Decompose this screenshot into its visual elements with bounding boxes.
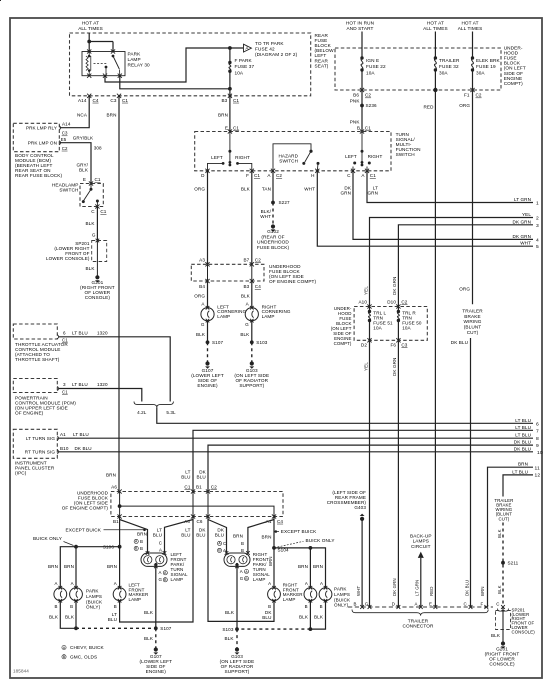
svg-text:10A: 10A <box>402 326 411 331</box>
underhood fuse block box top <box>335 48 501 90</box>
svg-text:ORG: ORG <box>459 287 470 292</box>
wire feed IGN E <box>361 32 363 59</box>
svg-text:UNDERHOOD: UNDERHOOD <box>257 240 289 245</box>
svg-text:ONLY): ONLY) <box>334 603 349 608</box>
svg-text:LAMP: LAMP <box>128 57 141 62</box>
svg-text:REAR FUSE BLOCK): REAR FUSE BLOCK) <box>15 173 63 178</box>
svg-text:PNK: PNK <box>350 99 361 104</box>
svg-text:TRAILER: TRAILER <box>462 309 483 314</box>
pin A1 C4 bottom <box>272 514 276 518</box>
svg-text:B: B <box>218 549 221 553</box>
svg-text:G403: G403 <box>354 505 366 510</box>
wire DK BLU edge 9 to lower fuse block <box>208 445 533 491</box>
svg-text:GRN: GRN <box>340 190 351 195</box>
wire brace output to edge 6 <box>157 407 533 423</box>
splice S107 cornering <box>206 340 210 344</box>
wire BLK to S107 cornering <box>207 321 209 343</box>
svg-text:BLU: BLU <box>181 532 190 537</box>
svg-text:LT BLU: LT BLU <box>515 433 531 438</box>
wire BLK left park turn lamp to S107 <box>155 566 157 628</box>
wire BLK dashed to G103 bottom <box>236 629 238 648</box>
svg-text:ORG: ORG <box>194 186 205 191</box>
svg-text:RIGHT: RIGHT <box>368 154 383 159</box>
svg-text:S107: S107 <box>160 626 171 631</box>
ground G103 bottom <box>235 647 239 651</box>
svg-text:NCA: NCA <box>77 112 88 117</box>
svg-text:TO TR PARK: TO TR PARK <box>255 41 284 46</box>
pin F6 C3 <box>396 338 400 342</box>
splice pack SP201 left <box>92 241 107 262</box>
wire LT BLU 1320 throttle to brace <box>59 337 171 402</box>
pin B4 <box>205 279 209 283</box>
svg-text:LEFT: LEFT <box>211 155 223 160</box>
svg-text:A6: A6 <box>111 484 117 489</box>
svg-text:A3: A3 <box>199 257 205 262</box>
svg-text:B: B <box>54 604 57 609</box>
svg-text:CIRCUIT: CIRCUIT <box>411 544 431 549</box>
pin F C1 on switch <box>250 169 254 173</box>
svg-text:LAMPS: LAMPS <box>334 592 350 597</box>
svg-text:B6: B6 <box>353 93 359 98</box>
svg-text:B: B <box>357 125 360 130</box>
svg-text:WHT: WHT <box>520 241 531 246</box>
svg-text:B: B <box>241 541 244 546</box>
svg-text:A: A <box>71 581 74 586</box>
svg-text:A: A <box>54 581 57 586</box>
svg-text:FUSE 32: FUSE 32 <box>439 64 459 69</box>
svg-text:B: B <box>70 604 73 609</box>
splice pack SP201 right <box>498 609 509 612</box>
svg-text:BRN: BRN <box>107 564 117 569</box>
pin B1 bottom <box>118 514 122 518</box>
svg-text:3: 3 <box>63 382 66 387</box>
svg-text:IGN E: IGN E <box>366 58 379 63</box>
svg-text:BRN: BRN <box>64 564 74 569</box>
svg-text:C1: C1 <box>184 484 190 489</box>
wire BRN diagonal to left park turn lamp <box>120 520 148 554</box>
wire BRN from C3 C1 down to A6 <box>118 96 120 492</box>
svg-text:308: 308 <box>94 146 102 151</box>
svg-text:1: 1 <box>536 201 539 207</box>
svg-text:S107: S107 <box>212 340 223 345</box>
svg-text:S103: S103 <box>256 340 267 345</box>
wire WHT G403 to trailer connector B <box>361 519 363 607</box>
svg-text:BLK: BLK <box>144 610 154 615</box>
pin A10 <box>367 304 371 308</box>
pin B3 C1 on rear fuse block <box>228 94 232 98</box>
svg-text:FUSE 37: FUSE 37 <box>235 64 255 69</box>
svg-text:BRAKE: BRAKE <box>464 314 480 319</box>
svg-text:PNK: PNK <box>350 119 361 124</box>
wire fuse bottom to B3 <box>229 71 231 96</box>
svg-text:B: B <box>164 578 167 582</box>
svg-text:ENGINE): ENGINE) <box>146 669 167 674</box>
svg-text:BLK: BLK <box>86 221 96 226</box>
pin A6 C6 bottom <box>191 514 195 518</box>
pin A G of left park turn lamp <box>154 565 158 569</box>
wire BRN B1 to S106 and marker lamp <box>119 517 121 588</box>
right turn switch contacts <box>361 132 363 152</box>
svg-text:C1: C1 <box>254 173 260 178</box>
svg-text:1320: 1320 <box>97 382 108 387</box>
splice S211 <box>501 561 505 565</box>
svg-text:C2: C2 <box>255 257 261 262</box>
svg-text:(DIAGRAM 2 OF 2): (DIAGRAM 2 OF 2) <box>255 52 298 57</box>
svg-text:A: A <box>164 571 167 575</box>
svg-text:C3: C3 <box>401 342 407 347</box>
svg-text:12: 12 <box>535 472 541 478</box>
pin A C2 on switch <box>271 169 275 173</box>
svg-text:3: 3 <box>536 223 539 229</box>
svg-text:TRAILER: TRAILER <box>408 618 429 623</box>
wire BRN buick only park lamps right <box>274 548 326 588</box>
trailer connector brace <box>352 610 488 616</box>
svg-text:DK BLU: DK BLU <box>75 446 92 451</box>
svg-text:EXCEPT BUICK: EXCEPT BUICK <box>281 529 317 534</box>
wire GRY/BLK 308 from BCM to headlamp switch <box>60 143 91 184</box>
svg-text:(REAR OF: (REAR OF <box>261 234 284 239</box>
ground G103 cornering <box>250 361 254 365</box>
pin A G of right park turn lamp <box>235 565 239 569</box>
svg-text:1320: 1320 <box>97 330 108 335</box>
svg-text:C1: C1 <box>233 98 239 103</box>
svg-text:ENGINE): ENGINE) <box>197 383 218 388</box>
svg-text:G102: G102 <box>267 229 279 234</box>
svg-text:LT BLU: LT BLU <box>72 382 88 387</box>
svg-text:A14: A14 <box>62 122 71 127</box>
svg-text:A: A <box>240 569 243 574</box>
underhood fuse block box trailer fuses <box>354 307 427 341</box>
svg-text:BRN: BRN <box>106 472 116 477</box>
svg-text:BLK: BLK <box>314 614 324 619</box>
svg-text:G: G <box>159 577 163 582</box>
wire hot feed to relay <box>88 33 90 52</box>
wire BLK headlamp switch to SP201 <box>96 207 98 241</box>
svg-text:BLK: BLK <box>497 585 502 594</box>
svg-text:RIGHT: RIGHT <box>235 155 250 160</box>
svg-text:C4: C4 <box>255 284 261 289</box>
svg-text:COMPT): COMPT) <box>504 81 523 86</box>
pin C3 C1 on rear fuse block <box>117 94 121 98</box>
pin C1 B1 top <box>191 489 195 493</box>
svg-text:B1: B1 <box>196 484 202 489</box>
svg-text:BLK: BLK <box>49 614 59 619</box>
svg-text:BRN: BRN <box>107 112 117 117</box>
svg-text:C2: C2 <box>401 299 407 304</box>
svg-text:FUSE 19: FUSE 19 <box>476 64 496 69</box>
pin A3 <box>205 262 209 266</box>
wire BRN A1 C4 to S104 <box>273 517 275 588</box>
svg-text:DK GRN: DK GRN <box>513 219 531 224</box>
svg-text:LAMP: LAMP <box>171 577 184 582</box>
pin D10 C2 <box>396 304 400 308</box>
svg-text:G: G <box>92 232 96 237</box>
legend B gmc olds <box>62 655 66 659</box>
fuse TRL L TRN FUSE 51 10A <box>369 307 371 312</box>
svg-text:GMC, OLDS: GMC, OLDS <box>70 654 97 659</box>
svg-text:LAMPS: LAMPS <box>413 539 429 544</box>
svg-text:S227: S227 <box>279 200 290 205</box>
pin A C1 on switch <box>365 169 369 173</box>
svg-text:A14: A14 <box>78 98 87 103</box>
legend A chevy buick <box>62 645 66 649</box>
splice S104 <box>272 546 276 550</box>
svg-text:6: 6 <box>63 330 66 335</box>
svg-text:5: 5 <box>536 244 539 250</box>
svg-text:LAMP: LAMP <box>217 314 230 319</box>
svg-text:SWITCH: SWITCH <box>279 158 298 163</box>
svg-text:YEL: YEL <box>522 212 531 217</box>
svg-text:EXCEPT BUICK: EXCEPT BUICK <box>66 527 102 532</box>
svg-text:ONLY): ONLY) <box>86 605 101 610</box>
svg-text:C4: C4 <box>93 98 99 103</box>
svg-text:C2: C2 <box>211 484 217 489</box>
ground G403 <box>360 517 364 521</box>
lamp left front park turn signal lamp <box>141 553 167 566</box>
wire BRN from B3 C1 down to turn signal switch <box>229 96 231 132</box>
svg-text:LT GRN: LT GRN <box>514 197 531 202</box>
svg-text:9: 9 <box>536 443 539 449</box>
svg-text:TRAILER: TRAILER <box>439 58 460 63</box>
svg-text:F1: F1 <box>464 93 470 98</box>
svg-text:A: A <box>159 547 162 552</box>
wire ORG elek brk blunt cut <box>472 90 474 304</box>
svg-text:C: C <box>159 540 162 545</box>
svg-text:ELEK BRK: ELEK BRK <box>476 58 501 63</box>
svg-text:11: 11 <box>535 465 540 471</box>
svg-text:10A: 10A <box>235 70 244 75</box>
fuse IGN E FUSE 22 10A <box>360 56 363 59</box>
svg-text:B: B <box>140 539 143 544</box>
svg-text:AND START: AND START <box>346 26 373 31</box>
svg-text:CONSOLE): CONSOLE) <box>512 629 536 634</box>
svg-text:F: F <box>246 173 249 178</box>
svg-text:DK GRN: DK GRN <box>392 578 397 596</box>
svg-text:C2: C2 <box>476 93 482 98</box>
wire LT BLU edge 7 to lower fuse block <box>193 430 533 491</box>
svg-text:B: B <box>245 577 248 581</box>
svg-text:5.3L: 5.3L <box>166 410 176 415</box>
wire DK GRN to edge 4 <box>353 171 533 240</box>
svg-text:C1: C1 <box>233 125 239 130</box>
ground G102 <box>271 224 275 228</box>
svg-text:C: C <box>223 541 226 546</box>
ground G201 right <box>501 641 505 645</box>
svg-text:30A: 30A <box>439 70 448 75</box>
svg-text:BLK: BLK <box>497 529 502 538</box>
svg-text:ALL TIMES: ALL TIMES <box>458 26 483 31</box>
svg-text:(BUICK: (BUICK <box>86 599 103 604</box>
svg-text:B: B <box>268 604 271 609</box>
svg-text:D: D <box>392 601 395 606</box>
pin A6 top <box>118 489 122 493</box>
svg-text:BLK: BLK <box>241 186 251 191</box>
wire LT GRN to edge 1 <box>367 171 533 203</box>
svg-text:THROTTLE SHAFT): THROTTLE SHAFT) <box>15 357 60 362</box>
fuse TRAILER FUSE 32 30A <box>434 56 437 59</box>
svg-text:YEL: YEL <box>363 286 368 295</box>
svg-text:A: A <box>159 570 162 575</box>
svg-text:C2: C2 <box>62 146 68 151</box>
brace 4.2L 5.3L engine options <box>134 402 173 408</box>
svg-text:BLU: BLU <box>262 615 271 620</box>
bus inside lower fuse block <box>119 492 121 517</box>
pin B6 C2 <box>360 88 364 92</box>
svg-text:CONSOLE): CONSOLE) <box>489 661 515 666</box>
pin H on switch <box>315 169 319 173</box>
svg-text:B: B <box>63 655 66 659</box>
wire LT BLU diagonal to left park turn lamp <box>165 520 194 554</box>
svg-text:C1: C1 <box>122 98 128 103</box>
svg-text:SWITCH: SWITCH <box>59 187 78 192</box>
svg-text:BLK: BLK <box>240 332 250 337</box>
svg-text:LOWER CONSOLE): LOWER CONSOLE) <box>46 256 90 261</box>
wire YEL edge 2 to trailer fuse <box>370 218 534 307</box>
svg-text:S103: S103 <box>222 627 233 632</box>
wire feed elek brk fuse <box>472 32 474 59</box>
svg-text:SUPPORT): SUPPORT) <box>239 383 264 388</box>
svg-text:F6: F6 <box>390 342 396 347</box>
svg-text:A: A <box>268 581 271 586</box>
wire BLK/WHT to ground G102 <box>272 203 274 226</box>
svg-text:7: 7 <box>536 428 539 434</box>
svg-text:LT BLU: LT BLU <box>515 425 531 430</box>
svg-text:LT BLU: LT BLU <box>72 330 88 335</box>
svg-text:E: E <box>225 125 228 130</box>
pin B3 C4 <box>250 279 254 283</box>
wire BLK dashed to G103 cornering <box>251 342 253 362</box>
svg-text:10A: 10A <box>373 326 382 331</box>
svg-text:BLU: BLU <box>153 532 162 537</box>
wire DK BLU IPC to edge 10 <box>59 451 534 453</box>
svg-text:BLK: BLK <box>196 332 206 337</box>
svg-text:BLU: BLU <box>197 474 206 479</box>
svg-text:ALL TIMES: ALL TIMES <box>78 26 103 31</box>
fuse ELEK BRK FUSE 19 30A <box>471 56 474 59</box>
svg-text:C1: C1 <box>365 125 371 130</box>
svg-text:FUSE BLOCK): FUSE BLOCK) <box>257 245 290 250</box>
svg-text:C2: C2 <box>276 173 282 178</box>
svg-text:PARK: PARK <box>334 587 347 592</box>
pin F1 C2 <box>470 88 474 92</box>
svg-text:C1: C1 <box>100 209 106 214</box>
svg-text:PRK LMP RLY: PRK LMP RLY <box>26 125 57 130</box>
svg-text:LEFT: LEFT <box>345 154 357 159</box>
pin E C1 on switch <box>228 129 232 133</box>
wire feed trailer fuse <box>434 32 436 59</box>
svg-text:BUICK ONLY: BUICK ONLY <box>306 538 336 543</box>
pin B C1 on switch <box>360 129 364 133</box>
svg-text:BRN: BRN <box>262 534 272 539</box>
svg-text:DK GRN: DK GRN <box>392 277 397 295</box>
ground G107 bottom <box>154 647 158 651</box>
svg-text:OF ENGINE): OF ENGINE) <box>15 410 44 415</box>
svg-text:C1: C1 <box>62 389 68 394</box>
svg-text:LT BLU: LT BLU <box>73 432 89 437</box>
svg-text:DK BLU: DK BLU <box>464 580 469 596</box>
svg-text:E5: E5 <box>61 137 67 142</box>
svg-text:A10: A10 <box>359 299 368 304</box>
svg-text:BRN: BRN <box>268 556 273 566</box>
left turn switch contacts <box>229 132 231 152</box>
splice S227 <box>271 201 275 205</box>
svg-text:A: A <box>218 542 221 546</box>
svg-text:6: 6 <box>536 421 539 427</box>
svg-text:BRN: BRN <box>480 586 485 596</box>
svg-text:BLU: BLU <box>215 532 224 537</box>
svg-text:LT BLU: LT BLU <box>512 469 528 474</box>
svg-text:BUICK ONLY: BUICK ONLY <box>33 536 63 541</box>
svg-text:LT GRN: LT GRN <box>414 580 419 596</box>
svg-text:G: G <box>245 322 249 327</box>
svg-text:BRN: BRN <box>298 564 308 569</box>
svg-text:BRN: BRN <box>48 564 58 569</box>
svg-text:A: A <box>245 570 248 574</box>
pin D2 <box>367 338 371 342</box>
wire relay second output <box>120 76 230 89</box>
svg-text:30A: 30A <box>476 70 485 75</box>
underhood fuse block box cornering <box>191 264 264 281</box>
svg-text:A: A <box>320 581 323 586</box>
svg-text:COMPT): COMPT) <box>334 341 352 346</box>
wire relay output to fuse top and connector A <box>105 48 243 82</box>
svg-text:C4: C4 <box>277 519 283 524</box>
svg-text:D: D <box>201 173 205 178</box>
splice S103 bottom <box>235 627 239 631</box>
svg-text:LAMPS: LAMPS <box>86 594 102 599</box>
label EXCEPT BUICK right <box>275 531 279 533</box>
svg-text:4.2L: 4.2L <box>137 410 147 415</box>
svg-text:C2: C2 <box>365 93 371 98</box>
svg-text:BLU: BLU <box>108 617 117 622</box>
wire LT BLU 1320 pcm to brace <box>59 389 142 402</box>
svg-text:D2: D2 <box>361 342 367 347</box>
svg-text:B: B <box>114 604 117 609</box>
svg-text:BLK: BLK <box>65 614 75 619</box>
svg-text:BLK: BLK <box>79 168 89 173</box>
svg-text:B: B <box>140 546 143 551</box>
svg-text:BRN: BRN <box>233 533 243 538</box>
svg-text:RELAY 30: RELAY 30 <box>128 63 151 68</box>
svg-text:BLK: BLK <box>225 636 235 641</box>
svg-text:LT BLU: LT BLU <box>515 418 531 423</box>
svg-text:SUPPORT): SUPPORT) <box>225 669 250 674</box>
svg-text:GRY/BLK: GRY/BLK <box>73 136 94 141</box>
svg-text:S236: S236 <box>366 103 377 108</box>
rear fuse block box <box>70 33 311 96</box>
svg-text:A: A <box>135 540 138 544</box>
svg-text:RT TURN SIG: RT TURN SIG <box>25 449 56 454</box>
connector A to TR PARK fuse 42 <box>244 44 252 52</box>
splice S107 bottom <box>154 626 158 630</box>
svg-text:CUT): CUT) <box>499 516 510 521</box>
trailer connector dashed line <box>348 606 493 608</box>
module BCM body control module <box>13 123 59 151</box>
svg-text:LT TURN SIG: LT TURN SIG <box>26 436 56 441</box>
svg-text:B: B <box>305 604 308 609</box>
svg-text:SWITCH: SWITCH <box>396 152 415 157</box>
svg-text:E: E <box>83 177 86 182</box>
svg-text:C3: C3 <box>110 98 116 103</box>
svg-text:BLU: BLU <box>196 532 205 537</box>
svg-text:PRK LMP ON: PRK LMP ON <box>28 140 57 145</box>
svg-text:A: A <box>63 646 66 650</box>
svg-text:FUSE 22: FUSE 22 <box>366 64 386 69</box>
svg-text:C6: C6 <box>197 519 203 524</box>
wire WHT to edge 5 <box>317 171 533 246</box>
svg-text:CONSOLE): CONSOLE) <box>85 295 111 300</box>
svg-text:BLK: BLK <box>86 266 96 271</box>
